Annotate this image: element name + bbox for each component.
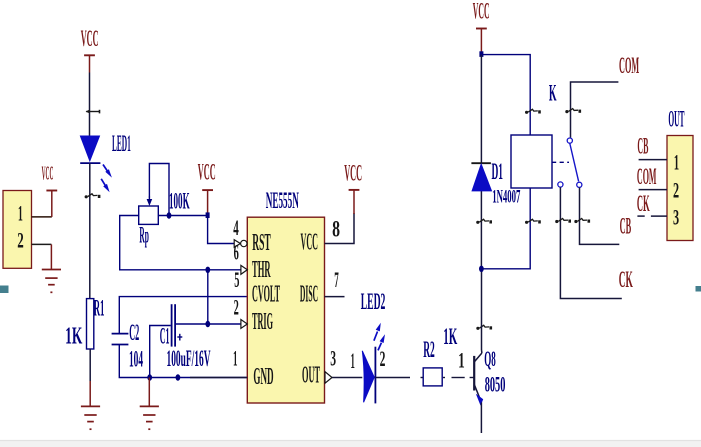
VCC label LED1 branch [81,26,99,51]
svg-text:7: 7 [334,267,339,292]
svg-text:2: 2 [380,346,386,371]
svg-text:2: 2 [234,295,239,320]
tick mark on relay top wire [525,109,541,114]
Rp value 100K [169,188,190,213]
tick mark below LED1 [85,194,101,199]
diode D1 1N4007 [471,163,491,191]
svg-text:CK: CK [637,191,650,216]
pin name OUT [302,363,320,389]
svg-text:VCC: VCC [198,160,216,185]
pin name GND [253,364,273,390]
D1 value 1N4007 [492,186,520,207]
svg-text:1K: 1K [443,324,457,349]
wire R1 to ground [89,349,91,406]
CB net label [620,213,632,238]
C2 value 104 [129,347,143,372]
svg-text:C2: C2 [129,320,139,345]
Q8 label [484,346,496,371]
C2 label [129,320,139,345]
wire ground stem below GND wire [148,378,150,407]
svg-text:CB: CB [637,133,648,158]
pin number 1 [233,346,238,371]
pin number 2 at LED2 cathode [380,346,386,371]
svg-text:COM: COM [637,164,657,189]
wire OUT pin3 [637,215,667,217]
svg-text:LED2: LED2 [361,289,386,314]
wire right contact to CB [580,188,620,245]
wire relay coil bottom [481,188,530,269]
OUT label [668,106,684,131]
tick mark on CK wire [555,219,571,224]
svg-text:VCC: VCC [473,0,490,23]
wire CVOLT to C2 [119,297,247,334]
svg-text:CB: CB [620,213,632,238]
pin name TRIG [252,309,273,335]
CK net label at OUT pin3 [637,191,650,216]
svg-text:K: K [549,81,557,106]
switch contact right [577,182,582,187]
R2 label [423,337,435,362]
junction D1 relay [479,266,484,272]
power VCC symbol at pin8 [349,190,360,214]
power VCC symbol at Rp [202,190,213,213]
svg-text:VCC: VCC [81,26,99,51]
Rp label [139,223,149,248]
junction VCC-Rp [206,212,210,218]
svg-text:DISC: DISC [300,282,318,308]
svg-text:TRIG: TRIG [252,309,273,335]
pin number 6 [234,239,239,264]
pin number 1 at Q8 base [458,347,465,372]
svg-text:1: 1 [18,201,23,226]
svg-text:3: 3 [330,346,336,371]
junction on THR wire [205,267,210,273]
LED2 emission arrows [374,323,385,351]
pin number 2 of OUT [673,178,679,203]
VCC label at Rp [198,160,216,185]
scroll marker left edge [0,286,9,294]
svg-text:1: 1 [351,348,355,373]
svg-text:D1: D1 [492,159,504,184]
wire LED2 to R2 [375,377,423,379]
svg-text:GND: GND [253,364,273,390]
svg-text:1: 1 [458,347,465,372]
RST pin triangle and bubble [234,240,247,248]
pin 2 label of J1 [17,228,24,253]
D1 label [492,159,504,184]
svg-text:5: 5 [234,267,239,292]
wire Q8 collector up [481,350,483,353]
Rp wiper arrow [147,197,153,207]
wire COM to switch [571,82,619,138]
svg-text:OUT: OUT [302,363,320,389]
svg-text:VCC: VCC [344,160,362,185]
LED LED2 [362,347,375,404]
svg-text:104: 104 [129,347,143,372]
wire C2 to GND wire [119,345,247,378]
LED1 label [112,131,131,156]
svg-text:CK: CK [619,267,633,292]
wire C1 to TRIG [175,323,241,325]
wire VCC to LED1 [89,73,91,137]
wire Rp right to VCC junction [158,215,207,217]
CK net label [619,267,633,292]
tick mark on LED1 branch [86,110,100,114]
VCC label at J1 [42,162,54,184]
wire DISC stub pin7 [325,296,345,298]
junction on TRIG wire [205,321,210,327]
LED1 emission arrows [101,165,112,193]
svg-text:1: 1 [233,346,238,371]
LED2 label [361,289,386,314]
pin number 7 [334,267,339,292]
Rp wiper loop wire [149,164,169,216]
pin name DISC [300,282,318,308]
wire LED1 to R1 [89,163,91,300]
ground below R1 [81,406,100,429]
ground at J1 [42,270,61,293]
svg-text:R1: R1 [94,295,105,320]
pin number 1 at LED2 anode [351,348,355,373]
svg-text:Rp: Rp [139,223,149,248]
connector OUT body [667,136,693,241]
switch K contact top [567,138,572,143]
svg-text:Q8: Q8 [484,346,496,371]
LED LED1 [80,136,100,163]
R1 value 1K [65,324,82,350]
resistor R2 [423,368,442,386]
power VCC symbol LED1 branch [84,55,95,72]
transistor Q8 [474,353,483,406]
svg-text:LED1: LED1 [112,131,131,156]
junction at Rp right terminal [167,212,172,218]
pin number 8 [332,216,340,241]
CB net label at OUT pin1 [637,133,648,158]
wire C1 negative [150,326,171,378]
switch arm [570,143,579,181]
wire VCC to relay coil top [481,55,530,135]
pin number 3 [330,346,336,371]
junction C1 negative on GND wire [147,374,152,380]
wire OUT pin1 [639,159,667,161]
svg-text:1N4007: 1N4007 [492,186,520,207]
wire Q8 emitter down [480,403,482,434]
svg-text:RST: RST [252,230,271,256]
junction on GND wire [176,374,181,380]
wire THR junction down to TRIG wire [207,270,209,324]
svg-text:COM: COM [619,53,639,78]
wire J1 pin2 to ground [32,244,52,269]
junction VCC right top [479,51,483,57]
ground below C2 [140,406,159,429]
tick mark on CB wire [574,219,590,224]
wire VCC down through D1 [480,55,482,269]
svg-text:VCC: VCC [301,230,319,256]
pin number 4 [233,215,239,240]
R1 label [94,295,105,320]
pin name RST [252,230,271,256]
pin name THR [252,257,271,283]
svg-text:C1: C1 [160,324,170,349]
wire left contact to CK [560,187,621,298]
svg-text:8050: 8050 [485,372,506,397]
wire OUT pin2 [639,189,667,191]
connector J1 [3,191,32,269]
resistor R1 [87,299,94,349]
pin 1 label of J1 [18,201,23,226]
svg-text:R2: R2 [423,337,435,362]
svg-text:1K: 1K [65,324,82,350]
C1 value 100uF/16V [167,346,211,371]
wire OUT to LED2 [332,377,362,379]
svg-text:VCC: VCC [42,162,54,184]
wire VCC junction down to RST [208,216,235,244]
C1 label [160,324,170,349]
scroll marker right edge [696,286,701,292]
svg-text:THR: THR [252,257,271,283]
Q8 value 8050 [485,372,506,397]
THR pin triangle [241,265,247,274]
svg-text:100K: 100K [169,188,190,213]
dashed link relay to switch [552,161,569,163]
wire pin8 to VCC [325,213,355,244]
C1 plus sign [177,334,182,341]
pin number 3 of OUT [673,205,679,230]
svg-text:2: 2 [17,228,24,253]
capacitor C1 [172,304,176,346]
tick mark on relay bottom wire [525,219,541,224]
svg-text:2: 2 [673,178,679,203]
potentiometer Rp [139,206,159,224]
wire R2 to Q8 base dashed [443,377,474,379]
bottom edge band [0,440,701,447]
VCC label right top [473,0,490,23]
pin name VCC [301,230,319,256]
VCC label at pin8 [344,160,362,185]
op-amp timer U1 NE555N body [247,217,324,403]
tick mark above D1 junction [476,219,492,224]
svg-text:3: 3 [673,205,679,230]
OUT pin triangle [325,372,332,384]
wire J1 pin1 to VCC [32,191,52,217]
COM net label top [619,53,639,78]
tick mark on switch top wire [565,109,581,114]
pin number 2 [234,295,239,320]
svg-text:6: 6 [234,239,239,264]
power VCC symbol at J1 [46,190,57,192]
svg-text:1: 1 [674,149,679,174]
tick mark on collector [476,325,492,330]
svg-text:8: 8 [332,216,340,241]
wire GND pin1 stub [190,377,247,379]
power VCC symbol right top [476,29,487,52]
wire collector to D1 junction [481,269,483,350]
K label [549,81,557,106]
R2 value 1K [443,324,457,349]
pin name CVOLT [252,282,280,308]
pin number 1 of OUT [674,149,679,174]
switch contact left [558,182,563,187]
svg-text:4: 4 [233,215,239,240]
svg-text:OUT: OUT [668,106,684,131]
pin number 5 [234,267,239,292]
TRIG pin triangle [241,320,247,329]
svg-text:NE555N: NE555N [266,188,299,213]
svg-text:CVOLT: CVOLT [252,282,280,308]
wire Rp left to THR [120,216,241,270]
NE555N label [266,188,299,213]
relay K coil [511,135,552,188]
capacitor C2 [112,334,129,345]
COM net label at OUT pin2 [637,164,657,189]
svg-text:100uF/16V: 100uF/16V [167,346,211,371]
